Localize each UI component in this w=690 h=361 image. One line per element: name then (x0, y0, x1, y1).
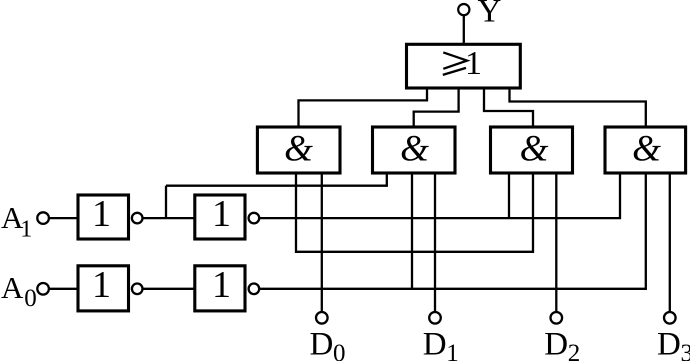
wire OR to AND1 (299, 88, 428, 127)
wire G1 bubble to G2 (143, 217, 195, 219)
svg-text:&: & (632, 129, 661, 170)
svg-text:D: D (310, 327, 334, 361)
svg-text:D: D (657, 327, 681, 361)
node D0 terminal (316, 312, 328, 324)
node Y terminal (458, 4, 469, 15)
inverter G2 output bubble (249, 213, 260, 224)
AND gate box 1 (257, 127, 340, 173)
wire A1 bus to AND4 (259, 173, 620, 218)
wire A0 bus tap to AND2 (411, 173, 413, 289)
wire A1 bus tap to AND3 (508, 173, 510, 218)
svg-text:1: 1 (465, 45, 482, 82)
wire A0 bus to AND4 (259, 173, 646, 289)
svg-text:3: 3 (681, 340, 690, 361)
AND gate box 2 (373, 127, 456, 173)
wire OR to AND4 (510, 88, 646, 127)
wire Y stub (463, 16, 465, 45)
node D2 terminal (551, 312, 563, 324)
inverter G2 box (A1 second) (195, 195, 245, 239)
svg-text:1: 1 (20, 216, 32, 242)
wire A1' bus to AND2 (166, 173, 387, 186)
svg-text:2: 2 (568, 340, 581, 361)
inverter G1 output bubble (132, 213, 143, 224)
wire A1 input (49, 217, 78, 219)
wire D3 line (669, 173, 671, 312)
wire OR to AND2 (414, 88, 459, 127)
svg-text:0: 0 (24, 285, 37, 312)
svg-text:1: 1 (212, 264, 231, 306)
label ge sign of OR gate (443, 52, 467, 68)
wire D2 line (555, 173, 557, 312)
svg-text:D: D (544, 327, 568, 361)
svg-text:1: 1 (446, 340, 459, 361)
OR gate U1 box (407, 44, 521, 88)
inverter G3 box (A0 first) (78, 266, 129, 311)
svg-text:0: 0 (333, 340, 346, 361)
svg-text:Y: Y (478, 0, 502, 30)
svg-text:1: 1 (212, 193, 231, 235)
node A1 terminal (37, 212, 49, 224)
inverter G3 output bubble (132, 284, 143, 295)
wire A1' tap up (165, 186, 167, 218)
inverter G4 output bubble (249, 284, 260, 295)
svg-text:1: 1 (92, 264, 111, 306)
node D3 terminal (664, 312, 676, 324)
svg-text:&: & (520, 129, 549, 170)
AND gate box 3 (491, 127, 573, 173)
node D1 terminal (429, 312, 441, 324)
wire OR to AND3 (484, 88, 533, 127)
wire G3 bubble to G4 (143, 288, 195, 290)
inverter G1 box (A1 first) (78, 195, 129, 239)
node A0 terminal (37, 283, 49, 295)
svg-text:A: A (1, 270, 24, 305)
wire D1 line (434, 173, 436, 312)
svg-text:D: D (423, 327, 447, 361)
wire A0' bus AND1 to AND3 (296, 173, 533, 252)
svg-text:&: & (400, 129, 429, 170)
wire D0 line (321, 173, 323, 312)
svg-text:1: 1 (92, 193, 111, 235)
inverter G4 box (A0 second) (195, 266, 245, 311)
wire A0 input (49, 288, 78, 290)
svg-text:&: & (284, 129, 313, 170)
AND gate box 4 (605, 127, 686, 173)
